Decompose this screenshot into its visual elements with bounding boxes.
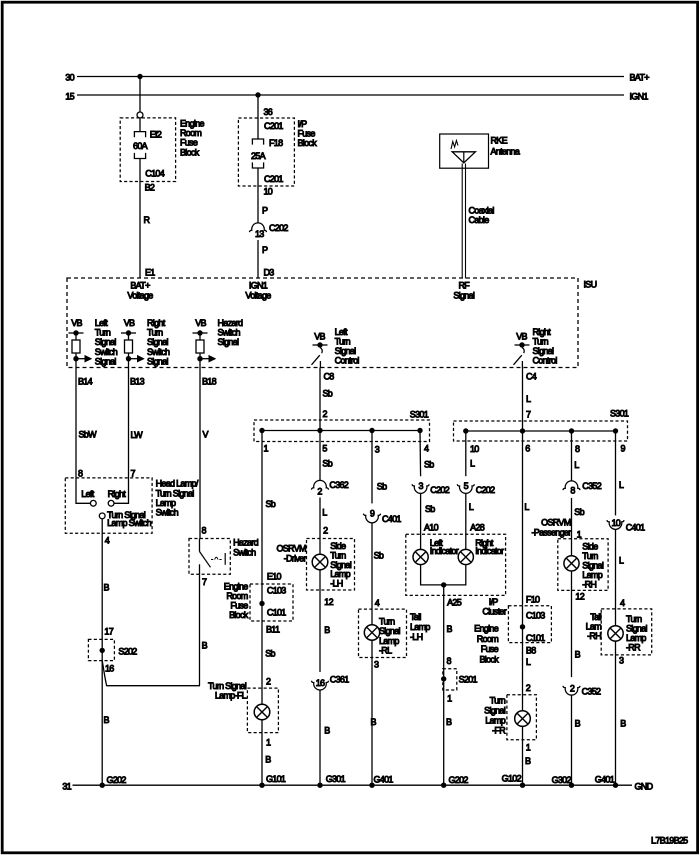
svg-text:Turn: Turn (533, 337, 549, 347)
svg-text:BAT+: BAT+ (130, 281, 150, 291)
svg-text:13: 13 (255, 229, 264, 239)
svg-text:10: 10 (611, 518, 620, 528)
svg-text:-LH: -LH (410, 632, 423, 642)
svg-text:B: B (575, 719, 581, 729)
wire P below fuse block (257, 168, 259, 223)
svg-text:Hazard: Hazard (233, 538, 259, 548)
contact Left (90, 500, 96, 506)
connector C202 pin 5 (457, 484, 474, 493)
svg-text:S301: S301 (610, 409, 629, 419)
svg-text:G301: G301 (326, 774, 346, 784)
svg-text:GND: GND (635, 781, 654, 791)
svg-text:VB: VB (124, 318, 135, 328)
svg-text:IGN1: IGN1 (630, 92, 649, 102)
svg-text:Antenna: Antenna (491, 146, 520, 156)
node S301-4 (417, 428, 422, 433)
svg-text:P: P (262, 245, 268, 255)
wire L to turn signal lamp FR (522, 643, 524, 711)
svg-text:Sb: Sb (377, 482, 387, 492)
svg-text:Signal: Signal (218, 337, 240, 347)
svg-text:P: P (262, 206, 268, 216)
svg-text:S201: S201 (459, 675, 478, 685)
svg-text:6: 6 (525, 444, 530, 454)
svg-text:Turn: Turn (490, 696, 506, 706)
svg-text:L: L (619, 556, 624, 566)
lamp turn signal RR (608, 626, 623, 641)
svg-text:Signal: Signal (379, 626, 401, 636)
svg-text:9: 9 (370, 509, 375, 519)
svg-text:Lamp Switch: Lamp Switch (107, 518, 152, 528)
svg-text:Switch: Switch (218, 328, 241, 338)
connector C202 pin 13 (249, 223, 266, 232)
svg-text:Voltage: Voltage (245, 291, 271, 301)
OSRVM-Passenger box (558, 539, 608, 591)
svg-text:Switch: Switch (147, 347, 170, 357)
svg-text:9: 9 (621, 444, 626, 454)
svg-text:Signal: Signal (484, 706, 506, 716)
svg-text:Voltage: Voltage (127, 291, 153, 301)
svg-text:15: 15 (65, 92, 74, 102)
svg-text:Engine: Engine (224, 582, 249, 592)
node S301-5 (317, 428, 322, 433)
svg-text:G302: G302 (552, 775, 572, 785)
svg-text:Switch: Switch (156, 508, 179, 518)
svg-text:16: 16 (105, 664, 114, 674)
svg-text:Sb: Sb (266, 499, 276, 509)
connector C352 pin 2 (563, 686, 580, 695)
svg-text:-Passenger: -Passenger (531, 528, 571, 538)
wire B C352 to G302 (571, 695, 573, 785)
wire L S301-10 to C202 (465, 431, 467, 476)
svg-text:3: 3 (418, 481, 423, 491)
wire from right indicator to junction (444, 565, 466, 585)
splice S301 left box (254, 420, 430, 442)
svg-text:R: R (144, 215, 151, 225)
svg-text:OSRVM: OSRVM (276, 544, 306, 554)
wire B lamp FL to G101 (261, 720, 263, 785)
Engine Room Fuse Block box 3 (508, 606, 551, 643)
svg-text:C103: C103 (267, 586, 286, 596)
svg-text:S202: S202 (118, 647, 137, 657)
svg-text:Signal: Signal (147, 356, 169, 366)
svg-text:C201: C201 (264, 121, 283, 131)
svg-text:Fuse: Fuse (298, 129, 316, 139)
svg-text:G102: G102 (502, 774, 522, 784)
svg-text:Room: Room (477, 634, 498, 644)
svg-text:B: B (104, 715, 110, 725)
svg-text:VB: VB (71, 318, 82, 328)
svg-text:C362: C362 (329, 480, 348, 490)
svg-text:Switch: Switch (95, 347, 118, 357)
wire Sb S301-3 to C401 (371, 431, 373, 504)
Turn Signal Lamp -RR box (601, 609, 652, 655)
svg-text:3: 3 (374, 660, 379, 670)
wire Sb C352 to OSRVM passenger lamp (571, 498, 573, 556)
svg-text:I/P: I/P (489, 597, 499, 607)
svg-text:Coaxial: Coaxial (469, 205, 495, 215)
wire branch from S202 to hazard return (102, 661, 200, 686)
svg-text:G401: G401 (595, 775, 615, 785)
svg-text:Room: Room (226, 591, 247, 601)
svg-text:B: B (265, 755, 271, 765)
connector C362 pin 2 (311, 480, 328, 489)
wire to left contact (76, 478, 90, 503)
svg-text:Turn Signal: Turn Signal (208, 681, 247, 691)
svg-text:G101: G101 (266, 774, 286, 784)
svg-text:12: 12 (575, 592, 584, 602)
svg-text:Right: Right (147, 318, 166, 328)
svg-text:C401: C401 (382, 514, 401, 524)
node S201 (441, 676, 446, 681)
I/P Cluster box (406, 534, 506, 595)
svg-text:VB: VB (314, 332, 325, 342)
svg-text:B: B (324, 726, 330, 736)
svg-text:Signal: Signal (147, 337, 169, 347)
junction on rail 15 (255, 92, 260, 97)
svg-text:25A: 25A (251, 151, 266, 161)
svg-text:Head Lamp/: Head Lamp/ (156, 479, 199, 489)
lamp turn signal RL (364, 625, 379, 640)
svg-text:Indicator: Indicator (475, 546, 504, 556)
wire B lamp RR to G401 (615, 641, 617, 785)
svg-text:Sb: Sb (323, 389, 333, 399)
junction C103/C101 (259, 601, 264, 606)
lamp side turn signal RH (564, 556, 579, 571)
svg-text:Turn Signal: Turn Signal (156, 488, 195, 498)
svg-text:2: 2 (526, 683, 531, 693)
svg-text:B8: B8 (526, 646, 536, 656)
svg-text:1: 1 (447, 694, 452, 704)
wire P to ISU D3 (257, 240, 259, 278)
svg-text:C4: C4 (526, 372, 537, 382)
lamp side turn signal LH (312, 554, 328, 570)
svg-text:VB: VB (195, 318, 206, 328)
svg-text:12: 12 (324, 597, 333, 607)
svg-text:Right: Right (108, 489, 127, 499)
svg-text:Sb: Sb (265, 649, 275, 659)
svg-text:B18: B18 (202, 377, 217, 387)
svg-text:Room: Room (180, 128, 201, 138)
svg-text:2: 2 (570, 683, 575, 693)
fuse F18 25A (252, 139, 263, 145)
svg-text:36: 36 (264, 107, 273, 117)
svg-text:3: 3 (375, 445, 380, 455)
svg-text:B13: B13 (130, 377, 145, 387)
splice S201 box (443, 669, 457, 690)
wire B A25 to S201 (443, 585, 445, 785)
svg-text:Left: Left (335, 327, 348, 337)
svg-text:L: L (470, 459, 475, 469)
RKE Antenna box (440, 134, 489, 168)
svg-text:16: 16 (316, 678, 325, 688)
svg-text:Tail: Tail (410, 612, 421, 622)
connector C401 pin 10 (607, 520, 624, 529)
wire Sb S301-5 to C362 (319, 431, 321, 481)
svg-text:2: 2 (323, 526, 328, 536)
svg-text:Sb: Sb (424, 460, 434, 470)
svg-text:Block: Block (479, 654, 499, 664)
svg-text:10: 10 (470, 444, 479, 454)
wire L C362 to OSRVM driver lamp (319, 497, 321, 554)
svg-text:G401: G401 (374, 775, 394, 785)
svg-text:Sb: Sb (574, 507, 584, 517)
wire Sb S301-4 to C202 (419, 431, 422, 477)
ground bus wire (73, 784, 633, 786)
svg-text:2: 2 (323, 409, 328, 419)
svg-text:B: B (371, 717, 377, 727)
svg-text:Right: Right (533, 327, 552, 337)
svg-text:17: 17 (104, 627, 113, 637)
svg-text:Engine: Engine (180, 119, 205, 129)
svg-text:4: 4 (424, 444, 429, 454)
svg-text:Tail: Tail (590, 612, 601, 622)
svg-text:5: 5 (322, 444, 327, 454)
connector ring above Engine Room Fuse Block (137, 112, 143, 118)
svg-text:60A: 60A (133, 141, 148, 151)
hazard switch blade (200, 552, 211, 568)
svg-text:4: 4 (375, 598, 380, 608)
junction C103/C101 (520, 624, 525, 629)
svg-text:Engine: Engine (474, 624, 499, 634)
svg-text:B: B (324, 625, 330, 635)
svg-text:Turn: Turn (95, 328, 111, 338)
svg-text:Side: Side (582, 541, 598, 551)
node S301-8 (569, 428, 574, 433)
svg-text:C8: C8 (324, 372, 335, 382)
wire BAT+ rail 30 (77, 76, 624, 78)
svg-text:C104: C104 (145, 169, 164, 179)
svg-text:Left: Left (81, 489, 94, 499)
node S301-3 (369, 428, 374, 433)
svg-text:IGN1: IGN1 (249, 281, 268, 291)
hazard switch actuator linkage (211, 557, 222, 559)
svg-text:Fuse: Fuse (481, 644, 499, 654)
wire L C401 to turn signal lamp RR (615, 529, 617, 626)
svg-text:L: L (574, 460, 579, 470)
svg-text:10: 10 (264, 187, 273, 197)
svg-text:L: L (526, 394, 531, 404)
svg-text:Lamp: Lamp (485, 716, 505, 726)
svg-text:Signal: Signal (95, 356, 117, 366)
antenna symbol (451, 141, 475, 163)
wire Sb to turn signal lamp FL (261, 621, 263, 704)
wire B lamp RL to G401 (371, 640, 373, 785)
svg-text:C202: C202 (476, 485, 495, 495)
svg-text:5: 5 (464, 481, 469, 491)
svg-text:B: B (104, 583, 110, 593)
svg-text:Block: Block (180, 147, 200, 157)
wire through fuse block (522, 606, 524, 643)
svg-text:Hazard: Hazard (218, 318, 244, 328)
svg-text:E10: E10 (267, 572, 282, 582)
svg-text:F10: F10 (526, 595, 540, 605)
hazard switch contact wire (199, 539, 201, 552)
svg-text:7: 7 (202, 577, 207, 587)
svg-text:8: 8 (202, 526, 207, 536)
svg-text:B2: B2 (145, 183, 155, 193)
svg-text:L: L (469, 502, 474, 512)
svg-text:B: B (575, 650, 581, 660)
svg-text:C101: C101 (267, 608, 286, 618)
I/P Fuse Block box (238, 118, 294, 186)
svg-text:Lamp: Lamp (582, 570, 602, 580)
S301 right bus wire (466, 430, 616, 432)
svg-text:Block: Block (229, 610, 249, 620)
svg-text:A28: A28 (470, 523, 485, 533)
svg-text:B: B (525, 756, 531, 766)
wire V B18 to hazard switch (199, 368, 201, 539)
svg-text:Sb: Sb (322, 459, 332, 469)
svg-text:2: 2 (317, 486, 322, 496)
wire B lamp to C361 (319, 570, 321, 672)
svg-text:8: 8 (570, 486, 575, 496)
wire SbW B14 to head lamp switch (75, 368, 77, 479)
svg-text:SbW: SbW (79, 430, 98, 440)
svg-text:Block: Block (298, 138, 318, 148)
svg-text:B: B (447, 624, 453, 634)
wire B C361 to G301 (319, 690, 321, 785)
svg-text:-FR: -FR (492, 726, 506, 736)
wire from left indicator to junction (421, 565, 444, 585)
splice S301 right box (454, 421, 628, 441)
connector C361 pin 16 (311, 681, 328, 690)
svg-text:V: V (203, 430, 209, 440)
svg-text:Turn: Turn (147, 328, 163, 338)
svg-text:G202: G202 (107, 775, 127, 785)
svg-text:Turn: Turn (335, 337, 351, 347)
coaxial cable double wire (462, 164, 465, 279)
connector C401 pin 9 (363, 514, 380, 523)
svg-text:Turn: Turn (582, 551, 598, 561)
svg-text:A10: A10 (424, 522, 439, 532)
wire L C4 to S301 pin 7 (522, 368, 524, 432)
svg-text:L: L (619, 480, 624, 490)
svg-text:L: L (526, 657, 531, 667)
S301 left bus wire (262, 430, 420, 432)
wire rail30 to C104 connector (139, 77, 141, 113)
svg-text:S301: S301 (410, 410, 429, 420)
svg-text:LW: LW (131, 430, 144, 440)
wire through fuse block (261, 584, 263, 621)
svg-text:Signal: Signal (95, 337, 117, 347)
svg-text:3: 3 (619, 656, 624, 666)
svg-text:Lam: Lam (586, 622, 602, 632)
svg-text:F18: F18 (269, 138, 283, 148)
svg-text:Ef2: Ef2 (150, 130, 162, 140)
Head Lamp Turn Signal Lamp Switch box (65, 478, 152, 533)
svg-text:B11: B11 (266, 625, 280, 635)
wire B pole to S202 (101, 519, 103, 785)
svg-text:Signal: Signal (533, 346, 555, 356)
svg-text:RKE: RKE (491, 136, 508, 146)
wire Sb C401 to turn signal lamp RL (371, 523, 373, 625)
svg-text:Fuse: Fuse (230, 601, 248, 611)
svg-text:B: B (446, 717, 452, 727)
svg-text:L: L (524, 502, 529, 512)
svg-text:L: L (322, 507, 327, 517)
svg-text:-Driver: -Driver (284, 554, 307, 564)
node S301-9 (613, 428, 618, 433)
lamp left indicator (413, 549, 428, 564)
svg-text:C361: C361 (330, 675, 349, 685)
svg-text:B: B (620, 719, 626, 729)
svg-text:1: 1 (266, 738, 271, 748)
contact Right (108, 500, 114, 506)
Hazard Switch box (189, 539, 230, 575)
svg-text:Control: Control (533, 356, 558, 366)
wire Sb C8 to S301 pin 2 (319, 368, 321, 431)
svg-text:Signal: Signal (582, 560, 604, 570)
svg-text:C201: C201 (264, 174, 283, 184)
hazard switch output wire (199, 564, 201, 574)
svg-text:I/P: I/P (298, 119, 308, 129)
svg-text:8: 8 (447, 656, 452, 666)
wire into fuse Ef2 (139, 118, 141, 131)
svg-text:Switch: Switch (233, 548, 256, 558)
svg-text:ISU: ISU (584, 280, 597, 290)
svg-text:-RR: -RR (626, 642, 641, 652)
svg-text:8: 8 (78, 469, 83, 479)
svg-text:A25: A25 (447, 598, 462, 608)
Turn Signal Lamp-FL box (247, 688, 278, 733)
lamp turn signal FL (254, 704, 270, 720)
svg-text:-RH: -RH (582, 579, 596, 589)
lamp right indicator (458, 549, 473, 564)
svg-text:B: B (202, 641, 208, 651)
pole contact turn signal lamp switch (99, 513, 105, 519)
svg-text:D3: D3 (264, 268, 275, 278)
wire to right contact (114, 478, 128, 503)
connector C202 pin 3 (412, 484, 429, 493)
svg-text:-RH: -RH (587, 631, 601, 641)
svg-text:8: 8 (575, 444, 580, 454)
wire B lamp FR to G102 (522, 726, 524, 785)
node S301-1 (259, 428, 264, 433)
wire B hazard to S202 branch (199, 574, 201, 685)
svg-text:30: 30 (65, 73, 74, 83)
wire L S301-8 to C352 (571, 431, 573, 481)
svg-text:VB: VB (516, 332, 527, 342)
svg-text:B14: B14 (78, 377, 93, 387)
svg-text:Turn: Turn (379, 617, 395, 627)
svg-text:C401: C401 (626, 523, 645, 533)
wire rail15 into I/P fuse block (257, 95, 259, 139)
svg-text:Signal: Signal (453, 291, 475, 301)
wire R from fuse block to ISU E1 (139, 159, 141, 279)
svg-text:Lamp: Lamp (379, 636, 399, 646)
fuse Ef2 60A (134, 132, 145, 138)
svg-text:Sb: Sb (374, 551, 384, 561)
svg-text:C352: C352 (582, 481, 601, 491)
OSRVM-Driver box (307, 539, 355, 591)
svg-text:Sb: Sb (425, 504, 435, 514)
svg-text:1: 1 (264, 444, 269, 454)
svg-text:-LH: -LH (330, 579, 343, 589)
svg-text:Lamp-FL: Lamp-FL (215, 691, 247, 701)
svg-text:Cable: Cable (469, 215, 490, 225)
svg-text:BAT+: BAT+ (630, 73, 650, 83)
svg-text:OSRVM: OSRVM (541, 518, 571, 528)
junction on rail 30 (137, 74, 142, 79)
wire Sb S301-1 to engine room fuse block (261, 431, 263, 585)
svg-text:4: 4 (105, 536, 110, 546)
connector C352 pin 8 (563, 481, 580, 490)
svg-text:Control: Control (335, 356, 360, 366)
Turn Signal Lamp -RL box (359, 609, 407, 657)
svg-text:C101: C101 (526, 633, 545, 643)
svg-text:Left: Left (95, 318, 108, 328)
svg-text:RF: RF (458, 281, 470, 291)
